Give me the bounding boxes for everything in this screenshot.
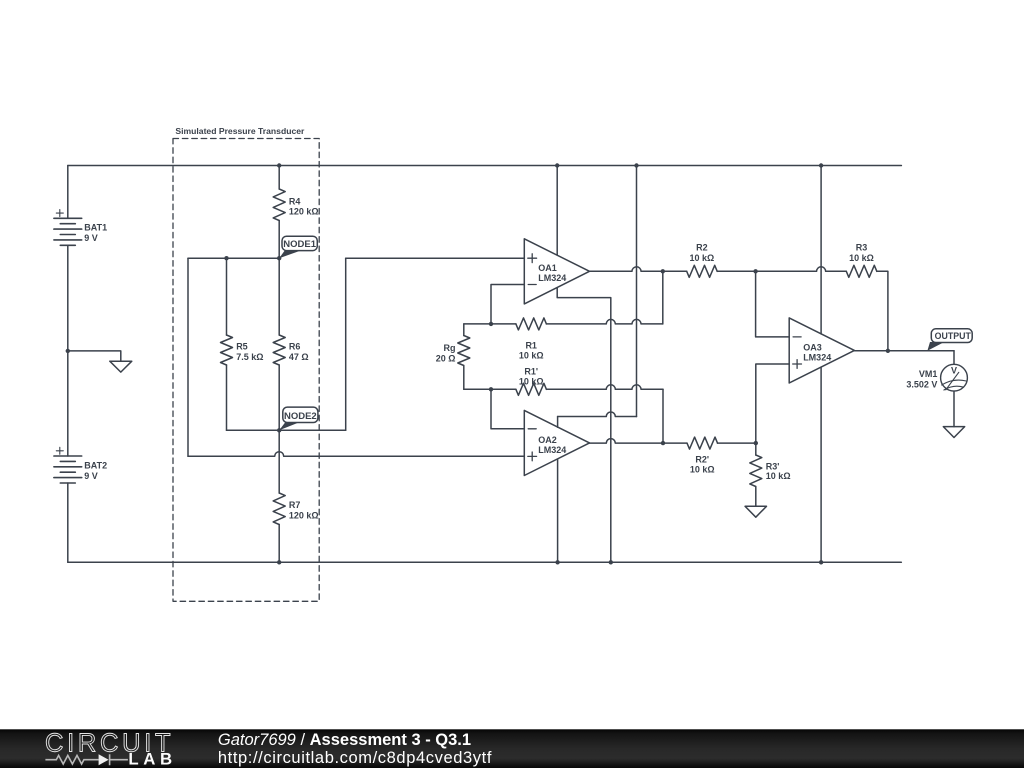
svg-text:V: V xyxy=(951,366,957,376)
svg-text:7.5 kΩ: 7.5 kΩ xyxy=(236,352,263,362)
svg-text:10 kΩ: 10 kΩ xyxy=(519,351,544,361)
svg-text:120 kΩ: 120 kΩ xyxy=(289,207,319,217)
svg-text:Simulated Pressure Transducer: Simulated Pressure Transducer xyxy=(175,126,305,136)
svg-text:R2': R2' xyxy=(695,454,709,464)
svg-text:R6: R6 xyxy=(289,342,301,352)
svg-text:120 kΩ: 120 kΩ xyxy=(289,510,319,520)
svg-text:OA1: OA1 xyxy=(538,263,557,273)
svg-text:VM1: VM1 xyxy=(919,369,938,379)
svg-text:OA2: OA2 xyxy=(538,435,557,445)
svg-text:R5: R5 xyxy=(236,342,248,352)
svg-text:3.502 V: 3.502 V xyxy=(906,379,937,389)
svg-text:20 Ω: 20 Ω xyxy=(436,353,456,363)
svg-text:R1': R1' xyxy=(524,367,538,377)
svg-text:R1: R1 xyxy=(525,341,537,351)
svg-text:R7: R7 xyxy=(289,500,301,510)
svg-text:OA3: OA3 xyxy=(803,342,822,352)
svg-text:LAB: LAB xyxy=(128,749,176,768)
svg-text:BAT2: BAT2 xyxy=(84,460,107,470)
svg-text:R3': R3' xyxy=(766,461,780,471)
svg-text:10 kΩ: 10 kΩ xyxy=(690,465,715,475)
svg-text:http://circuitlab.com/c8dp4cve: http://circuitlab.com/c8dp4cved3ytf xyxy=(218,749,492,767)
svg-text:NODE2: NODE2 xyxy=(284,411,317,422)
svg-text:Gator7699 / Assessment 3 - Q3.: Gator7699 / Assessment 3 - Q3.1 xyxy=(218,731,471,749)
svg-text:Rg: Rg xyxy=(444,343,456,353)
svg-text:10 kΩ: 10 kΩ xyxy=(519,376,544,386)
svg-text:R2: R2 xyxy=(696,243,708,253)
svg-text:OUTPUT: OUTPUT xyxy=(935,331,972,341)
svg-text:10 kΩ: 10 kΩ xyxy=(766,471,791,481)
svg-text:9 V: 9 V xyxy=(84,233,98,243)
svg-text:10 kΩ: 10 kΩ xyxy=(690,253,715,263)
svg-text:BAT1: BAT1 xyxy=(84,223,107,233)
svg-text:47 Ω: 47 Ω xyxy=(289,352,309,362)
svg-text:R4: R4 xyxy=(289,196,301,206)
svg-text:LM324: LM324 xyxy=(803,352,831,362)
svg-text:LM324: LM324 xyxy=(538,273,566,283)
svg-text:NODE1: NODE1 xyxy=(283,239,316,250)
svg-text:LM324: LM324 xyxy=(538,445,566,455)
svg-text:9 V: 9 V xyxy=(84,471,98,481)
svg-text:10 kΩ: 10 kΩ xyxy=(849,253,874,263)
svg-text:R3: R3 xyxy=(856,243,868,253)
